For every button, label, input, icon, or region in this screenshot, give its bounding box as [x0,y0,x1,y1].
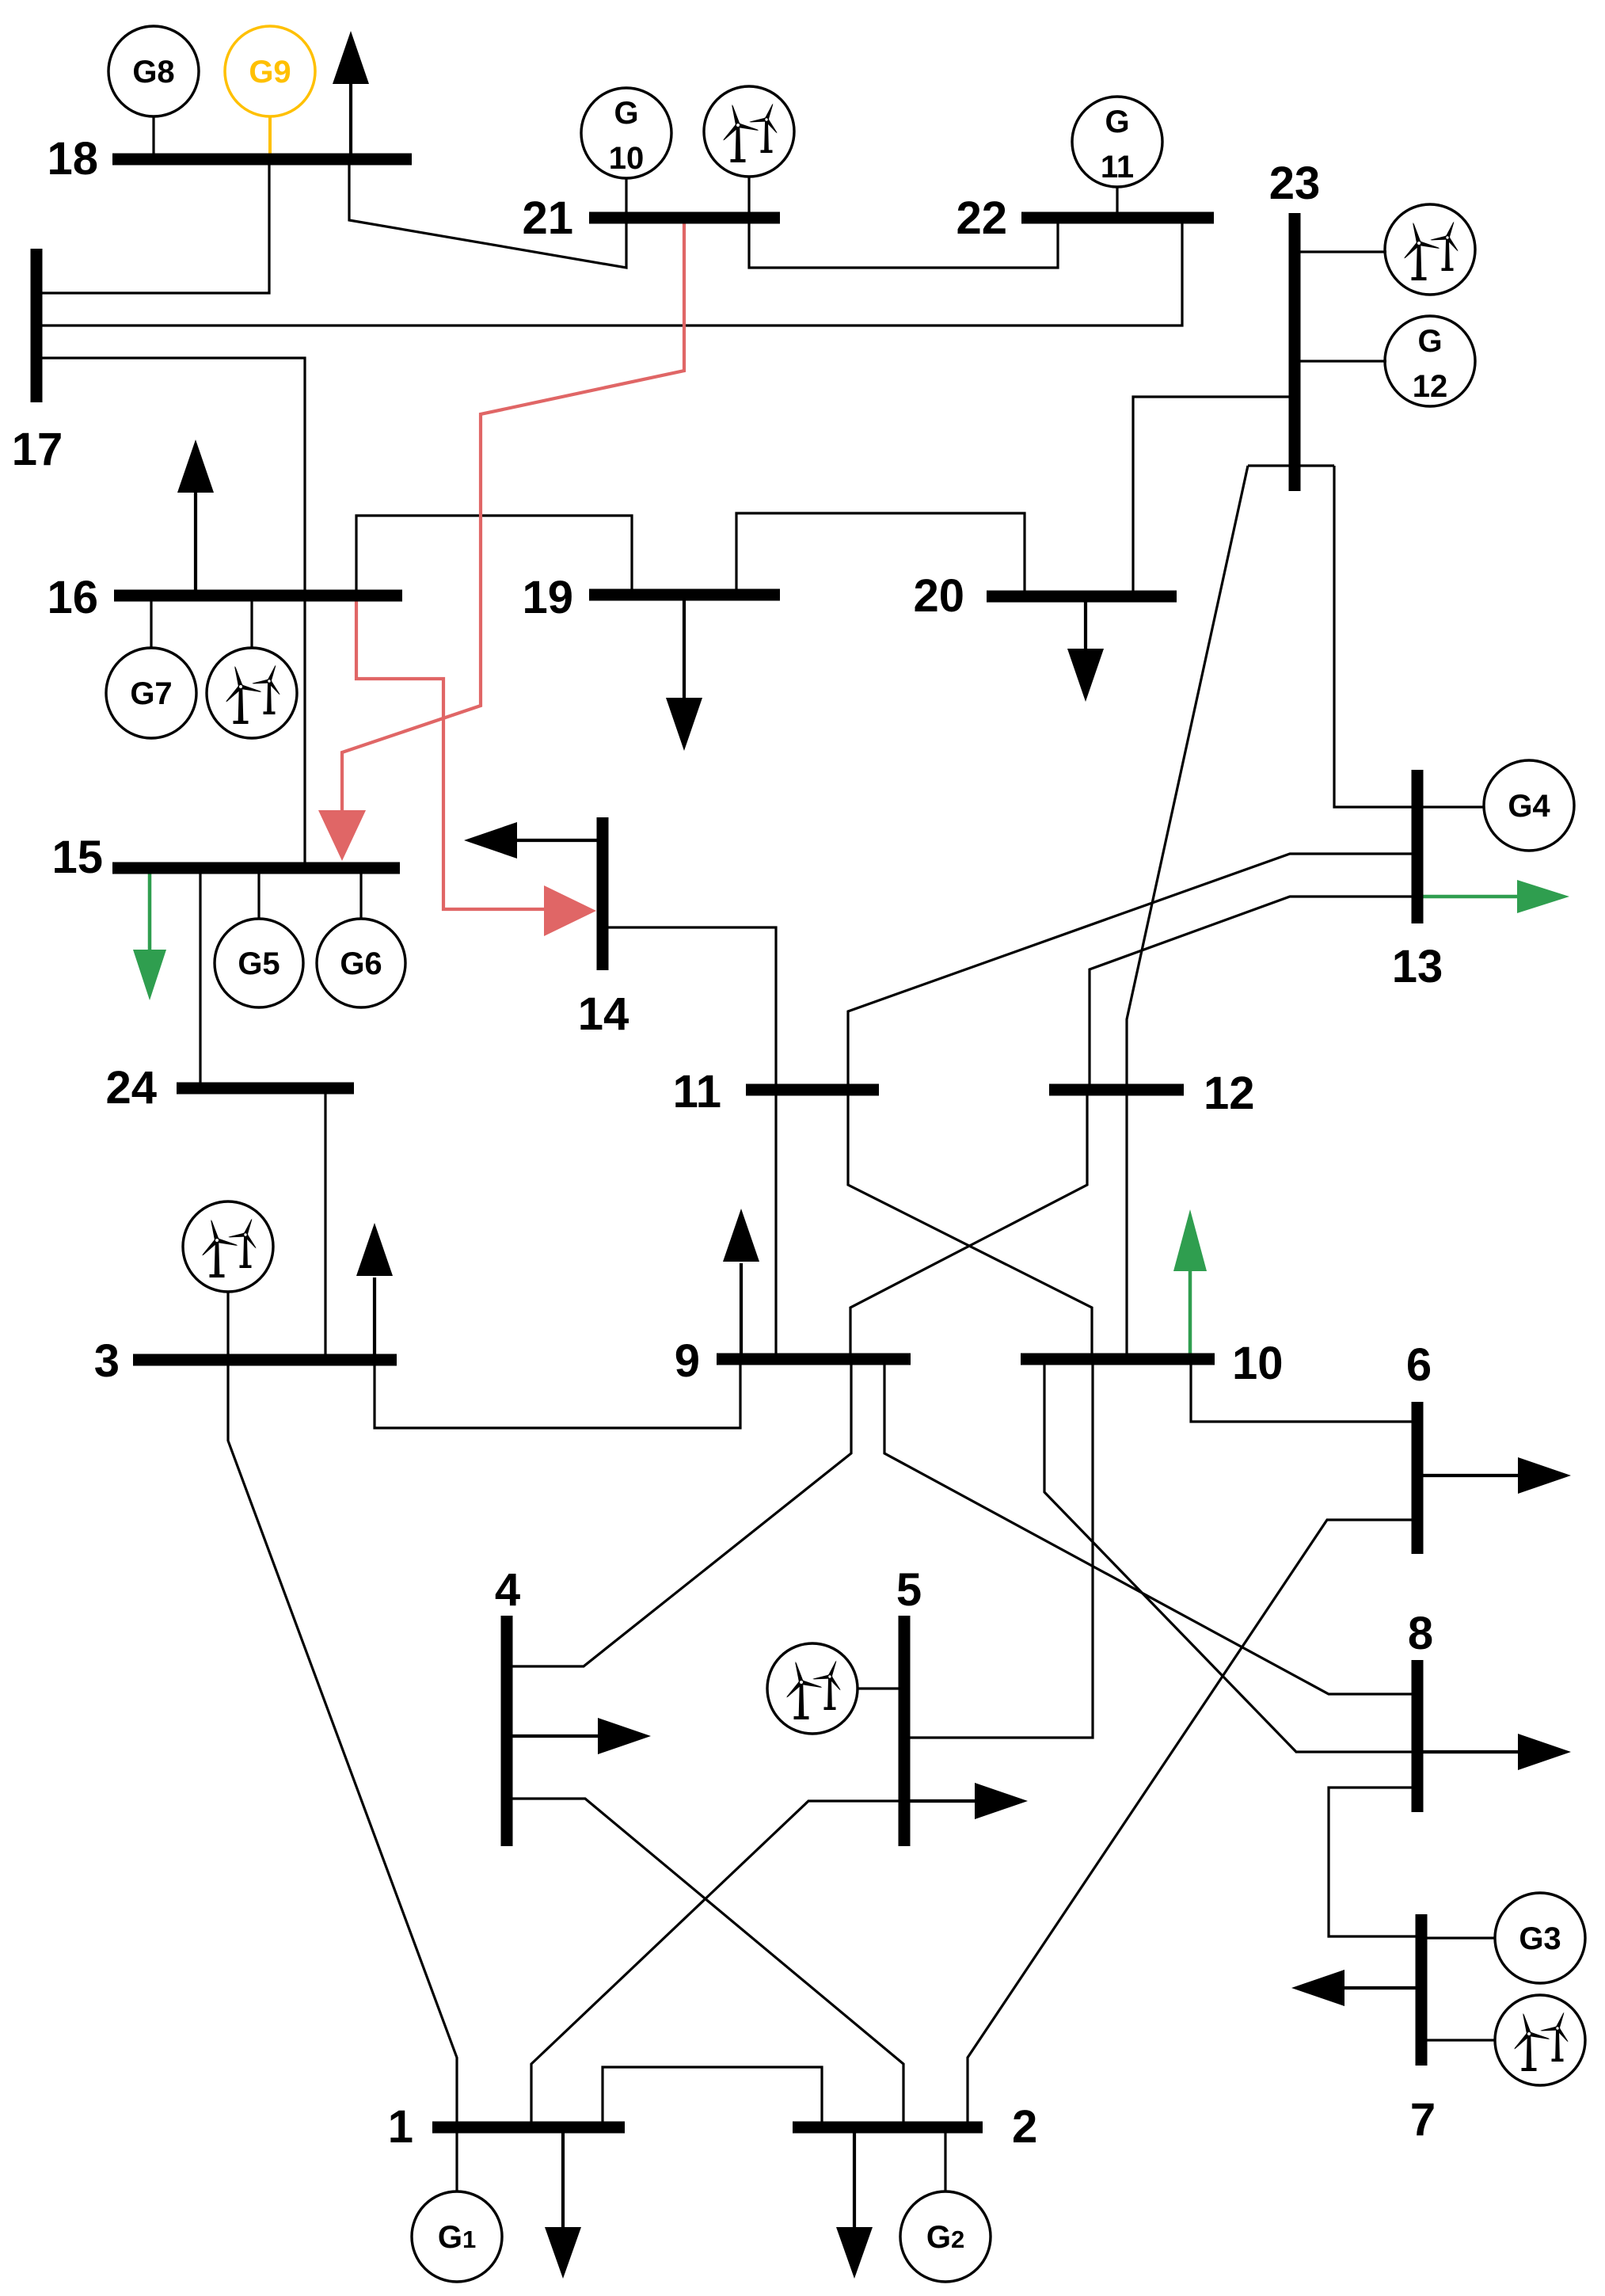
wire line 8-10 [1044,1359,1417,1752]
load arrow bus 19 [683,595,686,699]
wire line 5-10 [904,1359,1093,1738]
bus 14 [597,817,609,970]
load arrow bus 20 [1084,596,1087,650]
wire line 23-12 [1127,466,1248,1090]
wire stem G6 [359,868,362,920]
svg-text:18: 18 [47,133,98,185]
wire stem G10 [625,177,627,218]
bus 8 [1412,1660,1424,1812]
wire line 12-10 [1125,1090,1128,1359]
wire line 7-8 [1329,1788,1421,1936]
wire stem G1 [455,2127,458,2192]
load arrow bus 8 [1417,1750,1519,1753]
svg-text:G3: G3 [1519,1921,1561,1956]
load arrow bus 1 [561,2127,565,2229]
bus 13 [1412,770,1424,923]
svg-text:G: G [614,96,638,131]
generator G8 [108,26,199,116]
svg-text:3: 3 [94,1335,120,1387]
generator G3 [1495,1893,1585,1983]
svg-text:G: G [1417,324,1442,359]
bus 15 [112,862,400,874]
bus 1 [432,2122,625,2134]
wire line 11-13 [848,854,1417,1090]
generator G10 [581,88,671,178]
svg-text:19: 19 [522,572,573,623]
wire stub G3 [1421,1936,1496,1939]
wire line 2-4 [507,1799,903,2127]
svg-text:G7: G7 [130,676,172,711]
wire line 16-15 [303,596,306,868]
wire line 4-9 [507,1359,851,1666]
svg-text:G5: G5 [238,946,280,981]
wire line 1-2 [603,2067,822,2127]
wire line 1-5 [531,1801,904,2127]
wire stub G12 [1295,360,1386,362]
red arrow at bus 15 [318,810,366,861]
wire line 2-6 [968,1520,1417,2127]
generator G5 [215,919,303,1007]
load arrow bus 3 [373,1277,376,1360]
svg-text:12: 12 [1204,1068,1255,1119]
bus 6 [1412,1402,1424,1554]
svg-text:21: 21 [522,192,573,244]
bus 12 [1049,1084,1184,1096]
wire stub wind5 [857,1687,904,1689]
wire stem G2 [944,2127,946,2192]
svg-text:11: 11 [673,1066,721,1118]
wire line 20-23 [1133,397,1295,596]
wire line 8-9 [884,1359,1417,1694]
svg-text:G9: G9 [249,55,291,89]
red line 16-14 [356,596,546,909]
wire line 23-13 [1334,466,1417,807]
load arrow bus 4 [507,1734,599,1738]
bus 23 [1289,213,1301,491]
svg-text:17: 17 [12,424,63,475]
svg-text:5: 5 [896,1564,922,1616]
wire stem G11 [1116,186,1118,218]
wire stem wind16 [250,596,253,649]
wire line 24-3 [324,1088,326,1360]
svg-text:1: 1 [388,2101,413,2153]
generator G1 [412,2191,502,2282]
bus 9 [717,1354,911,1365]
wire stem G9 [268,116,272,159]
svg-text:2: 2 [1012,2101,1037,2153]
green arrow bus 10 [1189,1266,1192,1359]
bus 20 [987,591,1177,603]
svg-text:G6: G6 [340,946,382,981]
generator G7 [106,648,196,738]
bus 7 [1416,1914,1428,2066]
wire stub G4 [1417,805,1485,808]
svg-text:10: 10 [609,141,645,176]
svg-text:23: 23 [1269,158,1321,209]
svg-text:22: 22 [956,192,1007,244]
svg-text:9: 9 [675,1335,700,1387]
wire line 15-24 [199,868,201,1088]
bus 10 [1021,1354,1215,1365]
bus 2 [793,2122,983,2134]
wire line 17-18 [41,159,269,293]
wire line 6-10 [1191,1359,1417,1422]
wind generator at bus 7 [1495,1995,1585,2085]
load arrow bus 16 [194,491,197,596]
green arrow bus 13 [1417,895,1523,899]
svg-text:14: 14 [578,988,629,1040]
wire stub wind7 [1421,2039,1496,2041]
wind generator at bus 5 [767,1643,858,1734]
wind generator at bus 3 [183,1201,273,1292]
load arrow bus 6 [1417,1474,1519,1477]
bus 21 [589,212,780,224]
wire line 21-22 [749,218,1058,268]
bus 5 [899,1616,911,1846]
wire line 9-11 [774,1090,777,1359]
generator G12 [1385,316,1475,406]
svg-text:G8: G8 [132,55,174,89]
bus 17 [31,249,43,402]
svg-text:7: 7 [1410,2094,1436,2146]
wire line 17-22 [41,218,1182,326]
load arrow bus 5 [904,1799,976,1803]
load arrow bus 2 [853,2127,856,2229]
svg-text:8: 8 [1408,1608,1433,1659]
generator G9 [225,26,315,116]
generator G2 [900,2191,991,2282]
svg-text:4: 4 [495,1564,520,1616]
bus 24 [177,1083,354,1095]
wire line 18-21 [349,159,626,268]
wire bus23 bottom tap [1248,464,1334,466]
bus 19 [589,589,780,601]
wire line 9-12 [850,1090,1087,1359]
bus 18 [112,154,412,166]
wire stem G7 [150,596,152,649]
load arrow bus 9 [740,1263,743,1359]
svg-text:15: 15 [51,832,103,883]
wire stub wind23 [1295,250,1386,253]
wire line 19-20 [736,513,1025,596]
bus 22 [1021,212,1214,224]
wire line 10-11 [848,1090,1092,1359]
wire stem wind3 [226,1291,229,1360]
load arrow bus 18 [349,82,352,159]
wind generator at bus 23 [1385,204,1475,295]
svg-text:6: 6 [1406,1339,1432,1391]
generator G11 [1072,97,1162,187]
load arrow bus 7 [1343,1986,1421,1989]
wire line 1-3 [228,1360,457,2127]
wire line 3-9 [375,1360,740,1428]
load arrow bus 14 [515,839,597,842]
green load arrow bus 15 [148,868,152,955]
svg-text:10: 10 [1232,1338,1284,1389]
generator G4 [1484,760,1574,851]
wire line 12-13 [1090,897,1417,1090]
wind generator at bus 16 [207,648,297,738]
svg-text:16: 16 [47,572,98,623]
svg-text:12: 12 [1413,369,1448,404]
svg-text:G1: G1 [438,2220,476,2255]
wind generator at bus 21 [704,86,794,177]
wire stem G8 [152,116,154,159]
wire line 14-11 [603,927,776,1090]
svg-text:11: 11 [1101,150,1134,185]
svg-text:24: 24 [105,1062,157,1114]
svg-text:G2: G2 [926,2220,964,2255]
svg-text:20: 20 [913,570,964,622]
bus 16 [114,590,402,602]
svg-text:G: G [1105,105,1129,139]
wire stem wind21 [747,176,750,218]
bus 11 [746,1084,879,1096]
red arrow at bus 14 [544,885,596,936]
bus 3 [133,1354,397,1366]
bus 4 [501,1616,513,1846]
generator G6 [317,919,405,1007]
wire line 16-19 [356,516,632,596]
svg-text:G4: G4 [1508,789,1550,824]
red line 21-15 [342,218,684,818]
wire line 17-16 [41,358,305,596]
svg-text:13: 13 [1392,941,1443,992]
wire stem G5 [257,868,260,920]
